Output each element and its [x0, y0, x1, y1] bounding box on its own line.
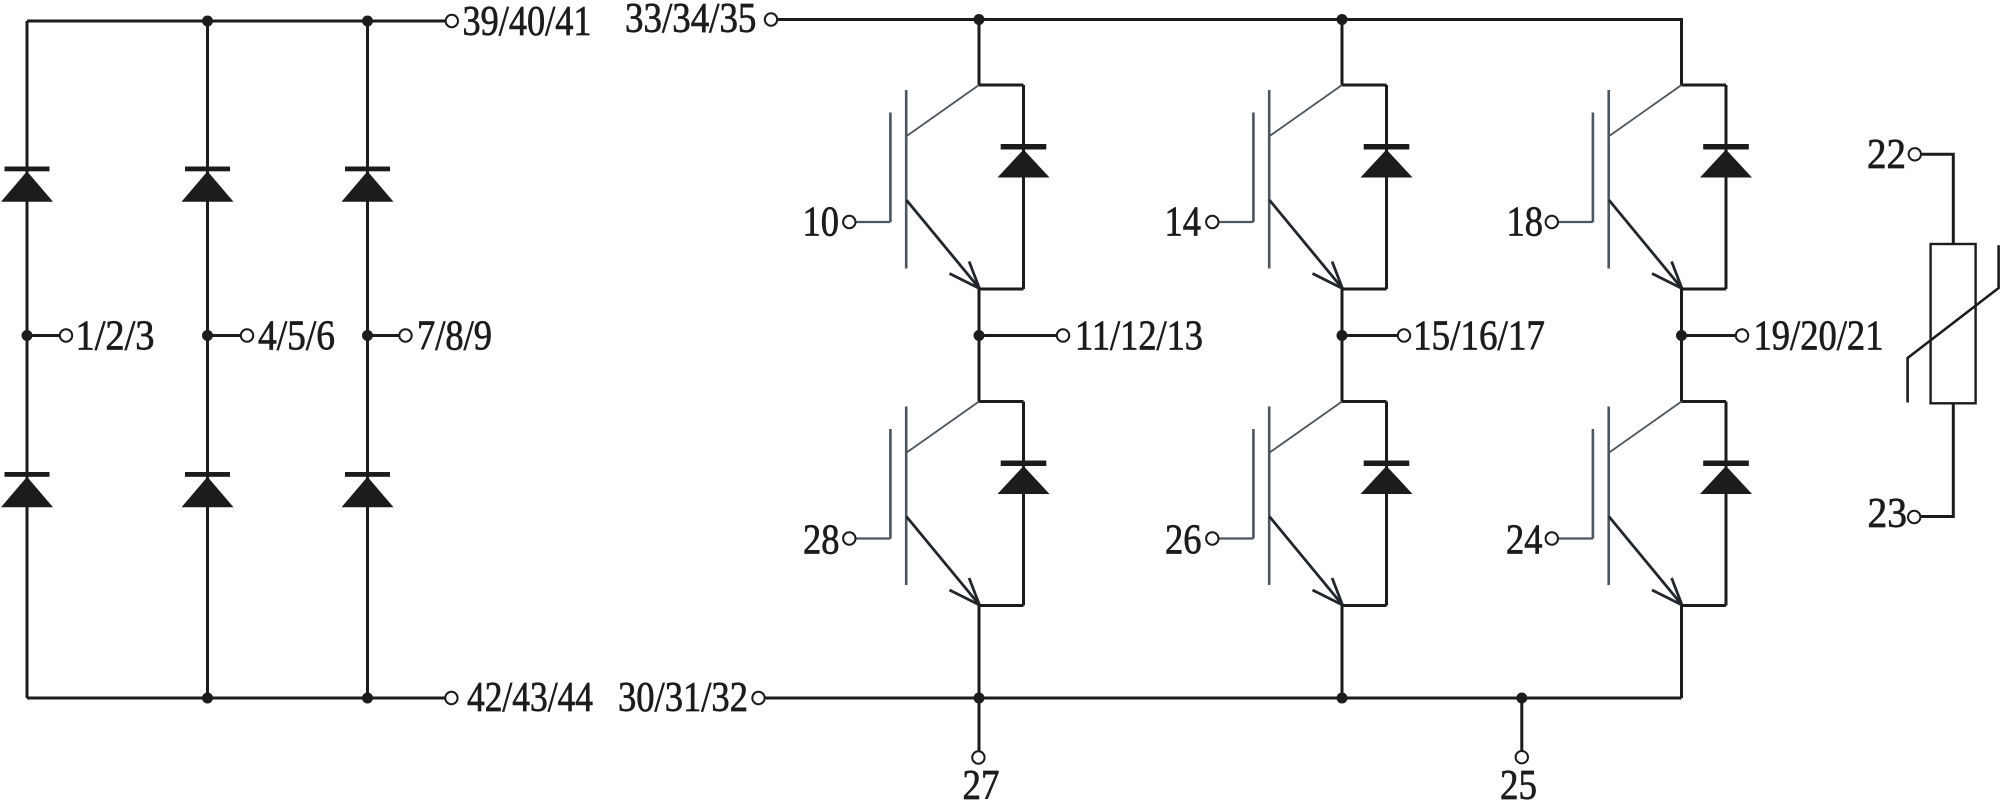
freewheel diode DF3 (cathode bar) — [1703, 144, 1749, 150]
wire collector link of Q6 (bottom, leg W) — [1682, 400, 1727, 403]
freewheel diode DF5 (cathode bar) — [1364, 461, 1410, 467]
IGBT Q3 (top, leg W) gate bar — [1592, 113, 1595, 223]
wire inverter DC+ rail — [778, 20, 1682, 86]
wire rectifier leg 2 (phase 4/5/6) — [206, 21, 209, 698]
terminal circle 1/2/3 — [60, 329, 72, 341]
freewheel diode DF4 (triangle) — [998, 466, 1050, 494]
terminal circle 33/34/35 — [765, 13, 777, 25]
wire freewheel-diode branch of Q3 (top, leg W) — [1725, 85, 1728, 289]
terminal circle 27 — [972, 751, 984, 763]
svg-text:23: 23 — [1868, 491, 1908, 537]
junction leg2 phase node — [202, 330, 213, 341]
terminal circle 4/5/6 — [241, 329, 253, 341]
wire emitter link of Q4 (bottom, leg U) — [979, 604, 1024, 607]
wire emitter link of Q1 (top, leg U) — [979, 288, 1024, 291]
wire stub to terminal 11/12/13 — [979, 334, 1057, 337]
diode D1 upper leg1 (cathode bar) — [5, 167, 50, 172]
IGBT Q4 (bottom, leg U) emitter arrowhead — [950, 578, 980, 605]
IGBT Q5 (bottom, leg V) emitter arrowhead — [1313, 578, 1343, 605]
thermistor RT1 diagonal mark — [1908, 245, 1999, 402]
IGBT Q6 (bottom, leg W) body bar — [1607, 407, 1610, 586]
terminal circle 19/20/21 — [1736, 329, 1748, 341]
svg-text:30/31/32: 30/31/32 — [618, 675, 748, 721]
diode D4 lower leg1 (triangle) — [1, 477, 53, 508]
svg-text:19/20/21: 19/20/21 — [1754, 314, 1884, 360]
IGBT Q4 (bottom, leg U) gate lead — [856, 537, 891, 539]
wire freewheel-diode branch of Q6 (bottom, leg W) — [1725, 402, 1728, 606]
terminal circle gate 10 — [843, 216, 855, 228]
wire leg U collector drop — [978, 20, 981, 86]
terminal circle 42/43/44 — [445, 692, 457, 704]
IGBT Q1 (top, leg U) gate lead — [856, 221, 891, 223]
IGBT Q3 (top, leg W) gate lead — [1558, 221, 1593, 223]
diode D5 lower leg2 (cathode bar) — [185, 472, 230, 477]
svg-text:24: 24 — [1506, 518, 1543, 564]
wire leg W midpoint — [1680, 289, 1683, 402]
diode D4 lower leg1 (cathode bar) — [5, 472, 50, 477]
svg-text:18: 18 — [1507, 200, 1544, 246]
freewheel diode DF4 (cathode bar) — [1001, 461, 1047, 467]
IGBT Q4 (bottom, leg U) body bar — [905, 407, 908, 586]
IGBT Q5 (bottom, leg V) emitter diagonal — [1269, 517, 1342, 606]
freewheel diode DF1 (triangle) — [998, 150, 1050, 178]
terminal circle gate 14 — [1206, 216, 1218, 228]
wire stub to terminal 1/2/3 — [27, 334, 60, 337]
junction top rail / leg3 — [362, 16, 373, 27]
svg-text:4/5/6: 4/5/6 — [258, 314, 335, 360]
freewheel diode DF6 (triangle) — [1700, 466, 1752, 494]
svg-text:10: 10 — [803, 200, 840, 246]
diode D5 lower leg2 (triangle) — [182, 477, 234, 508]
IGBT Q2 (top, leg V) collector diagonal — [1270, 85, 1342, 136]
IGBT Q5 (bottom, leg V) body bar — [1268, 407, 1271, 586]
terminal circle 7/8/9 — [399, 329, 411, 341]
terminal circle 30/31/32 — [752, 692, 764, 704]
IGBT Q6 (bottom, leg W) gate bar — [1592, 429, 1595, 539]
wire leg V emitter drop — [1341, 606, 1344, 699]
terminal circle gate 18 — [1546, 216, 1558, 228]
wire freewheel-diode branch of Q2 (top, leg V) — [1385, 85, 1388, 289]
wire stub to terminal 7/8/9 — [368, 334, 400, 337]
freewheel diode DF1 (cathode bar) — [1001, 144, 1047, 150]
wire stub to terminal 19/20/21 — [1682, 334, 1736, 337]
svg-text:14: 14 — [1165, 200, 1202, 246]
svg-text:15/16/17: 15/16/17 — [1413, 314, 1545, 360]
wire emitter link of Q6 (bottom, leg W) — [1682, 604, 1727, 607]
wire emitter link of Q5 (bottom, leg V) — [1342, 604, 1387, 607]
wire collector link of Q1 (top, leg U) — [979, 84, 1024, 87]
terminal circle gate 28 — [843, 532, 855, 544]
wire emitter link of Q3 (top, leg W) — [1682, 288, 1727, 291]
svg-text:42/43/44: 42/43/44 — [467, 675, 593, 721]
junction leg V phase node — [1337, 330, 1348, 341]
terminal circle 15/16/17 — [1398, 329, 1410, 341]
svg-text:22: 22 — [1867, 132, 1906, 178]
IGBT Q6 (bottom, leg W) gate lead — [1558, 537, 1593, 539]
wire wire to terminal 25 — [1520, 698, 1523, 751]
freewheel diode DF3 (triangle) — [1700, 150, 1752, 178]
wire wire to terminal 27 — [978, 698, 981, 751]
junction leg3 phase node — [362, 330, 373, 341]
freewheel diode DF5 (triangle) — [1361, 466, 1413, 494]
junction bottom rail / leg3 — [362, 693, 373, 704]
junction leg U phase node — [974, 330, 985, 341]
terminal circle 23 — [1908, 511, 1920, 523]
IGBT Q2 (top, leg V) gate lead — [1219, 221, 1254, 223]
terminal circle 25 — [1516, 751, 1528, 763]
IGBT Q1 (top, leg U) collector diagonal — [907, 85, 979, 136]
wire rectifier leg 1 (phase 1/2/3) — [26, 21, 29, 698]
svg-text:39/40/41: 39/40/41 — [463, 0, 592, 45]
IGBT Q1 (top, leg U) emitter diagonal — [906, 200, 979, 289]
IGBT Q1 (top, leg U) emitter arrowhead — [950, 262, 980, 289]
IGBT Q5 (bottom, leg V) gate lead — [1219, 537, 1254, 539]
wire rectifier positive rail (top) — [27, 20, 445, 23]
svg-text:27: 27 — [963, 763, 1000, 809]
IGBT Q2 (top, leg V) gate bar — [1252, 113, 1255, 223]
wire leg V midpoint — [1341, 289, 1344, 402]
IGBT Q6 (bottom, leg W) emitter arrowhead — [1652, 578, 1682, 605]
diode D3 upper leg3 (cathode bar) — [345, 167, 390, 172]
terminal circle 22 — [1909, 148, 1921, 160]
wire collector link of Q5 (bottom, leg V) — [1342, 400, 1387, 403]
junction leg1 phase node — [22, 330, 33, 341]
junction DC- rail / terminal 25 tap — [1516, 693, 1527, 704]
IGBT Q2 (top, leg V) body bar — [1268, 90, 1271, 269]
terminal circle 39/40/41 — [446, 15, 458, 27]
thermistor RT1 body (rectangle) — [1931, 244, 1976, 403]
junction DC- rail / leg U — [974, 693, 985, 704]
wire collector link of Q3 (top, leg W) — [1682, 84, 1727, 87]
IGBT Q3 (top, leg W) emitter diagonal — [1609, 200, 1682, 289]
terminal circle gate 24 — [1546, 532, 1558, 544]
junction DC+ rail / leg V — [1337, 14, 1348, 25]
diode D6 lower leg3 (cathode bar) — [345, 472, 390, 477]
terminal circle gate 26 — [1206, 532, 1218, 544]
wire leg V collector drop — [1341, 20, 1344, 86]
svg-text:25: 25 — [1500, 763, 1537, 809]
IGBT Q3 (top, leg W) collector diagonal — [1609, 85, 1681, 136]
IGBT Q4 (bottom, leg U) emitter diagonal — [906, 517, 979, 606]
diode D2 upper leg2 (cathode bar) — [185, 167, 230, 172]
IGBT Q3 (top, leg W) emitter arrowhead — [1652, 262, 1682, 289]
IGBT Q6 (bottom, leg W) collector diagonal — [1609, 402, 1681, 453]
wire freewheel-diode branch of Q5 (bottom, leg V) — [1385, 402, 1388, 606]
diode D2 upper leg2 (triangle) — [182, 171, 234, 202]
wire collector link of Q2 (top, leg V) — [1342, 84, 1387, 87]
wire leg W emitter drop — [1680, 606, 1683, 699]
svg-text:1/2/3: 1/2/3 — [76, 314, 155, 360]
diode D6 lower leg3 (triangle) — [342, 477, 394, 508]
wire rectifier leg 3 (phase 7/8/9) — [366, 21, 369, 698]
terminal circle 11/12/13 — [1057, 329, 1069, 341]
IGBT Q2 (top, leg V) emitter diagonal — [1269, 200, 1342, 289]
wire inverter DC- rail — [765, 697, 1682, 700]
IGBT Q4 (bottom, leg U) gate bar — [889, 429, 892, 539]
wire leg U midpoint — [978, 289, 981, 402]
junction DC- rail / leg V — [1337, 693, 1348, 704]
wire emitter link of Q2 (top, leg V) — [1342, 288, 1387, 291]
diode D3 upper leg3 (triangle) — [342, 171, 394, 202]
svg-text:28: 28 — [803, 518, 840, 564]
IGBT Q1 (top, leg U) body bar — [905, 90, 908, 269]
wire collector link of Q4 (bottom, leg U) — [979, 400, 1024, 403]
wire freewheel-diode branch of Q4 (bottom, leg U) — [1022, 402, 1025, 606]
junction top rail / leg2 — [202, 16, 213, 27]
IGBT Q4 (bottom, leg U) collector diagonal — [907, 402, 979, 453]
svg-text:33/34/35: 33/34/35 — [625, 0, 756, 42]
wire thermistor top lead — [1921, 154, 1953, 244]
IGBT Q5 (bottom, leg V) gate bar — [1252, 429, 1255, 539]
diode D1 upper leg1 (triangle) — [1, 171, 53, 202]
svg-text:26: 26 — [1165, 518, 1202, 564]
freewheel diode DF2 (cathode bar) — [1364, 144, 1410, 150]
wire freewheel-diode branch of Q1 (top, leg U) — [1022, 85, 1025, 289]
IGBT Q5 (bottom, leg V) collector diagonal — [1270, 402, 1342, 453]
IGBT Q1 (top, leg U) gate bar — [889, 113, 892, 223]
freewheel diode DF2 (triangle) — [1361, 150, 1413, 178]
freewheel diode DF6 (cathode bar) — [1703, 461, 1749, 467]
svg-text:11/12/13: 11/12/13 — [1075, 314, 1203, 360]
svg-text:7/8/9: 7/8/9 — [417, 314, 492, 360]
IGBT Q3 (top, leg W) body bar — [1607, 90, 1610, 269]
junction DC+ rail / leg U — [974, 14, 985, 25]
IGBT Q6 (bottom, leg W) emitter diagonal — [1609, 517, 1682, 606]
junction leg W phase node — [1676, 330, 1687, 341]
wire stub to terminal 4/5/6 — [208, 334, 241, 337]
wire thermistor bottom lead — [1921, 403, 1953, 516]
wire stub to terminal 15/16/17 — [1342, 334, 1398, 337]
wire rectifier negative rail (bottom) — [27, 697, 445, 700]
IGBT Q2 (top, leg V) emitter arrowhead — [1313, 262, 1343, 289]
wire leg U emitter drop — [978, 606, 981, 699]
junction bottom rail / leg2 — [202, 693, 213, 704]
